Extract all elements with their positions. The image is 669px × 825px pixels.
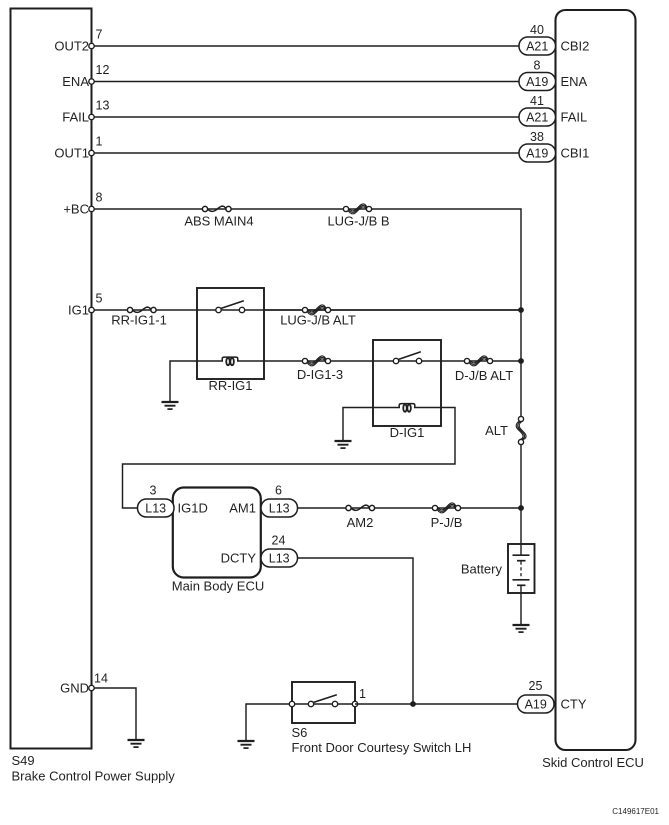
fusible link LUG-J/B ALT [302, 305, 330, 315]
wire OUT1 to CBI1 [92, 152, 520, 154]
svg-text:A21: A21 [526, 39, 548, 53]
svg-text:6: 6 [275, 484, 282, 498]
battery [508, 544, 535, 593]
svg-text:Main Body ECU: Main Body ECU [172, 579, 264, 594]
relay box D-IG1 [373, 340, 441, 426]
svg-text:1: 1 [96, 135, 103, 149]
wire coil row to D-IG1 [264, 360, 373, 362]
svg-text:A19: A19 [525, 697, 547, 711]
connector pill L13 (DCTY) pin 24 [261, 549, 298, 567]
wire ENA to ENA [92, 81, 520, 83]
svg-text:CBI1: CBI1 [561, 146, 590, 161]
svg-text:40: 40 [530, 23, 544, 37]
svg-text:OUT2: OUT2 [54, 39, 89, 54]
S49 pin terminal OUT2 [89, 43, 94, 48]
wire +BC feed and main bus [92, 209, 522, 417]
svg-text:CBI2: CBI2 [561, 39, 590, 54]
svg-text:24: 24 [272, 534, 286, 548]
relay contact S6 switch contact [308, 695, 337, 707]
svg-text:AM1: AM1 [229, 501, 256, 516]
S49 pin terminal +BC [89, 206, 94, 211]
wire courtesy switch to ground [246, 704, 292, 741]
svg-text:A19: A19 [526, 75, 548, 89]
fuse ABS MAIN4 [202, 206, 231, 211]
svg-text:ENA: ENA [62, 74, 89, 89]
fusible link D-IG1-3 [302, 356, 330, 366]
wire main bus lower segment [520, 445, 522, 545]
relay box RR-IG1 [197, 288, 264, 379]
svg-text:41: 41 [530, 94, 544, 108]
svg-text:GND: GND [60, 681, 89, 696]
svg-text:LUG-J/B B: LUG-J/B B [327, 214, 389, 229]
svg-text:12: 12 [96, 63, 110, 77]
S49 pin terminal ENA [89, 79, 94, 84]
svg-text:1: 1 [359, 687, 366, 701]
svg-text:5: 5 [96, 292, 103, 306]
svg-text:+BC: +BC [63, 202, 89, 217]
wire D-IG1 coil to IG1D pill [123, 408, 456, 509]
connector pill A21 (CBI2) pin 40 [519, 37, 556, 55]
svg-text:Front Door Courtesy Switch LH: Front Door Courtesy Switch LH [292, 740, 472, 755]
svg-text:L13: L13 [145, 501, 166, 515]
wire OUT2 to CBI2 [92, 45, 520, 47]
fusible link D-J/B ALT [464, 356, 492, 366]
component box Main Body ECU [173, 488, 261, 578]
svg-text:8: 8 [96, 191, 103, 205]
switch box S6 [292, 682, 355, 723]
S49 pin terminal GND [89, 685, 94, 690]
wire FAIL to FAIL [92, 116, 520, 118]
svg-text:FAIL: FAIL [561, 110, 588, 125]
svg-text:L13: L13 [269, 501, 290, 515]
svg-text:7: 7 [96, 28, 103, 42]
svg-text:IG1D: IG1D [178, 501, 208, 516]
svg-text:DCTY: DCTY [221, 551, 257, 566]
component box Skid Control ECU [556, 10, 636, 750]
fusible link P-J/B [432, 503, 460, 513]
svg-text:L13: L13 [269, 551, 290, 565]
wire coil row through D-IG1 and coil stub [373, 361, 521, 408]
connector pill A19 (CTY) pin 25 [518, 695, 555, 713]
svg-text:Battery: Battery [461, 562, 503, 577]
junction node AM1 row / bus [518, 505, 524, 511]
wire AM1 to bus [296, 507, 521, 509]
svg-text:ABS MAIN4: ABS MAIN4 [184, 214, 253, 229]
wire D-IG1 coil to ground [343, 408, 373, 442]
svg-text:14: 14 [94, 672, 108, 686]
svg-text:LUG-J/B ALT: LUG-J/B ALT [280, 313, 356, 328]
connector pill A21 (FAIL) pin 41 [519, 108, 556, 126]
relay contact RR-IG1 contact [216, 301, 245, 313]
svg-text:RR-IG1: RR-IG1 [208, 378, 252, 393]
S49 pin terminal FAIL [89, 114, 94, 119]
wire courtesy switch to CTY [355, 703, 518, 705]
svg-text:IG1: IG1 [68, 303, 89, 318]
wire IG1 row [92, 309, 522, 311]
svg-text:3: 3 [150, 484, 157, 498]
connector pill A19 (CBI1) pin 38 [519, 144, 556, 162]
S49 pin terminal OUT1 [89, 150, 94, 155]
svg-text:13: 13 [96, 99, 110, 113]
svg-text:D-IG1: D-IG1 [390, 425, 425, 440]
svg-text:AM2: AM2 [347, 515, 374, 530]
ground S6 ground [238, 741, 255, 748]
wire GND to ground [92, 688, 137, 740]
S6 right terminal pin 1 [352, 701, 357, 706]
wire DCTY to courtesy switch [296, 558, 413, 704]
ground S49 ground [128, 740, 145, 747]
svg-text:RR-IG1-1: RR-IG1-1 [111, 313, 167, 328]
relay coil D-IG1 [400, 406, 414, 408]
ground D-IG1 ground [335, 441, 352, 448]
svg-text:P-J/B: P-J/B [431, 515, 463, 530]
svg-text:8: 8 [534, 59, 541, 73]
relay contact D-IG1 contact [393, 352, 421, 364]
svg-text:38: 38 [530, 130, 544, 144]
relay coil RR-IG1 [223, 360, 237, 362]
fuse AM2 [346, 505, 375, 511]
svg-text:CTY: CTY [561, 697, 587, 712]
wire through S6 switch [292, 703, 355, 705]
svg-text:ALT: ALT [485, 423, 508, 438]
S6 left terminal [289, 701, 294, 706]
svg-text:Skid Control ECU: Skid Control ECU [542, 755, 644, 770]
svg-text:D-J/B ALT: D-J/B ALT [455, 368, 513, 383]
svg-text:ENA: ENA [561, 74, 588, 89]
svg-text:S49: S49 [12, 753, 35, 768]
svg-text:Brake Control Power Supply: Brake Control Power Supply [12, 769, 176, 784]
svg-text:FAIL: FAIL [62, 110, 89, 125]
connector pill A19 (ENA) pin 8 [519, 73, 556, 91]
fuse RR-IG1-1 [127, 307, 156, 313]
fusible link LUG-J/B B [343, 204, 371, 214]
junction node coil row / bus [518, 358, 524, 364]
wire IG1 row through RR-IG1 and coil stub [197, 310, 521, 361]
connector pill L13 (AM1) pin 6 [261, 499, 298, 517]
svg-text:25: 25 [529, 679, 543, 693]
svg-text:C149617E01: C149617E01 [612, 807, 659, 816]
ground RR-IG1 ground [162, 402, 179, 409]
ground battery ground [513, 625, 530, 632]
svg-text:A19: A19 [526, 146, 548, 160]
svg-text:D-IG1-3: D-IG1-3 [297, 367, 343, 382]
component box S49 Brake Control Power Supply [11, 9, 92, 749]
svg-text:S6: S6 [292, 725, 308, 740]
junction node IG1 row / bus [518, 307, 524, 313]
S49 pin terminal IG1 [89, 307, 94, 312]
wire RR-IG1 coil to ground [170, 361, 197, 402]
connector pill L13 (IG1D) pin 3 [138, 499, 175, 517]
fusible link ALT [516, 416, 526, 444]
svg-text:A21: A21 [526, 110, 548, 124]
junction node DCTY / CTY row [410, 701, 416, 707]
svg-text:OUT1: OUT1 [54, 146, 89, 161]
wire battery to ground [520, 593, 522, 625]
